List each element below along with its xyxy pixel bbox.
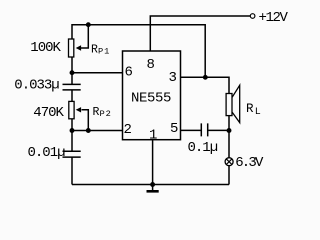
- svg-text:2: 2: [124, 122, 132, 138]
- svg-text:P2: P2: [100, 109, 112, 119]
- svg-text:5: 5: [170, 121, 178, 137]
- svg-text:3: 3: [169, 70, 177, 86]
- svg-text:0.01µ: 0.01µ: [28, 145, 66, 161]
- svg-text:R: R: [91, 44, 98, 57]
- svg-text:R: R: [246, 102, 254, 116]
- svg-text:470K: 470K: [33, 105, 64, 121]
- svg-text:0.033µ: 0.033µ: [14, 78, 59, 94]
- svg-text:1: 1: [149, 128, 157, 144]
- svg-text:P1: P1: [98, 47, 110, 57]
- svg-text:R: R: [93, 106, 100, 119]
- svg-text:0.1µ: 0.1µ: [188, 140, 218, 156]
- svg-text:L: L: [255, 107, 261, 118]
- svg-text:100K: 100K: [30, 40, 61, 56]
- svg-text:6.3V: 6.3V: [235, 155, 264, 171]
- svg-text:NE555: NE555: [131, 91, 171, 107]
- svg-text:6: 6: [125, 65, 133, 81]
- svg-text:+12V: +12V: [259, 10, 289, 26]
- svg-text:8: 8: [147, 57, 155, 73]
